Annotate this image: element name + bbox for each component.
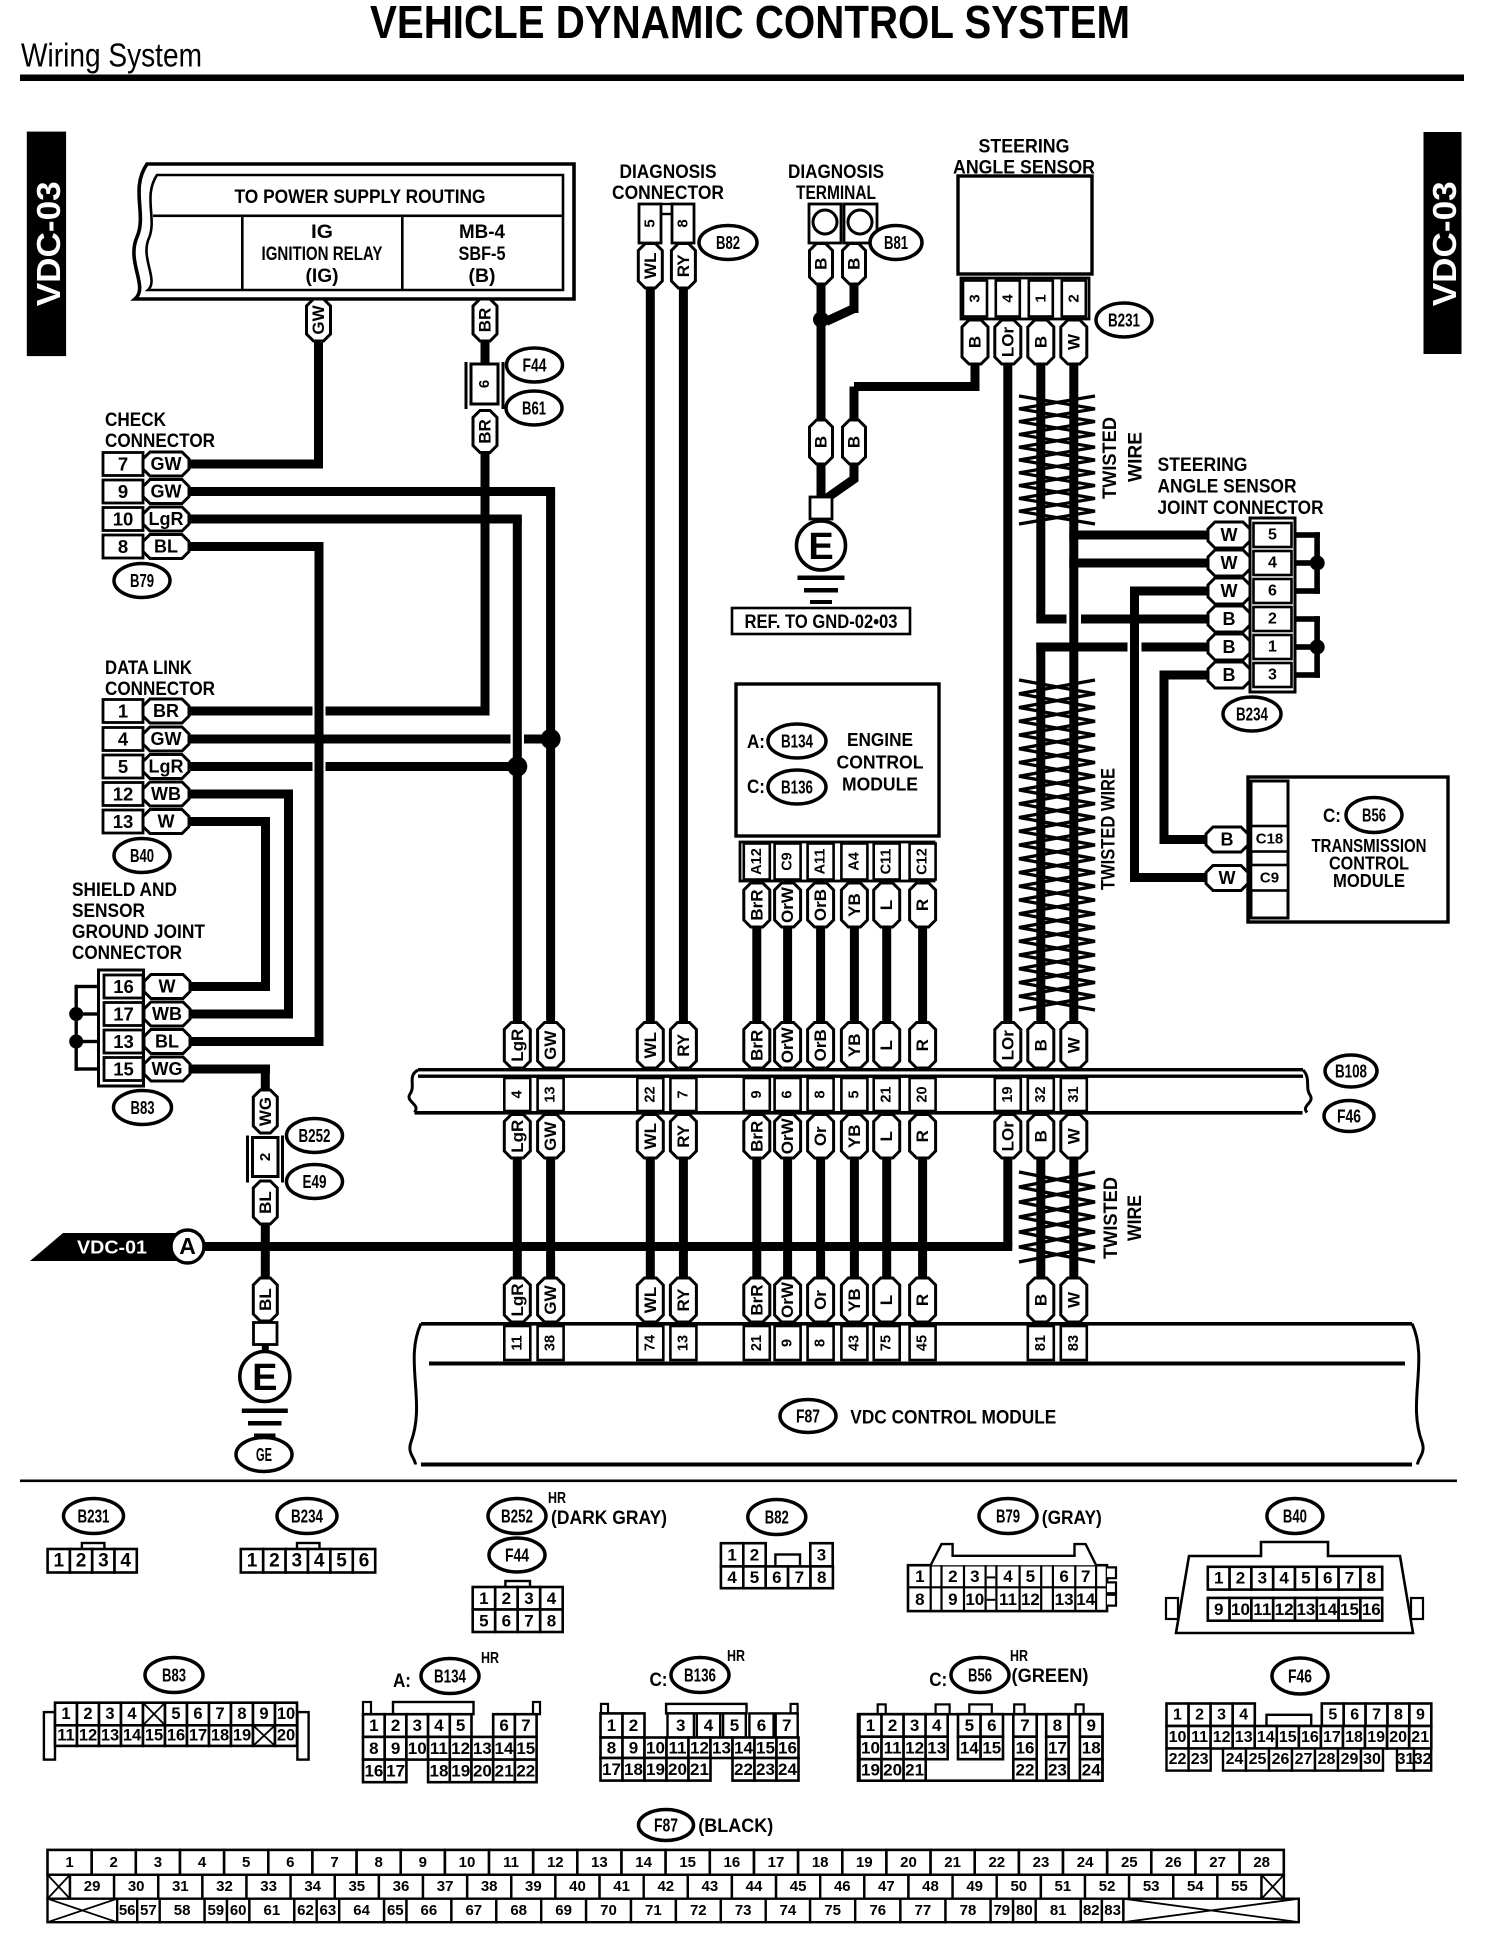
svg-text:B108: B108 [1335,1061,1367,1082]
wire RY to VDC module [679,1158,688,1278]
svg-text:7: 7 [1020,1716,1029,1735]
svg-text:1: 1 [727,1545,736,1564]
svg-text:8: 8 [915,1590,924,1609]
svg-text:8: 8 [813,1090,829,1098]
svg-text:RY: RY [674,1124,693,1148]
svg-text:W: W [1064,1127,1083,1144]
oval B82 [699,226,757,260]
svg-text:5: 5 [242,1854,250,1871]
svg-text:B231: B231 [1108,310,1140,331]
svg-text:7: 7 [1345,1569,1354,1588]
svg-text:24: 24 [1082,1760,1101,1779]
svg-text:13: 13 [543,1086,559,1102]
wire BL across VDC-01 line [261,1224,270,1278]
svg-text:2: 2 [1195,1706,1204,1723]
svg-text:SHIELD AND: SHIELD AND [72,880,177,901]
svg-text:12: 12 [1275,1600,1294,1619]
svg-text:B81: B81 [884,232,908,253]
svg-text:B82: B82 [765,1507,789,1528]
TCM pin C18 [1251,826,1288,852]
svg-text:6: 6 [286,1854,294,1871]
svg-text:7: 7 [1081,1567,1090,1586]
svg-text:49: 49 [966,1878,983,1895]
svg-text:54: 54 [1187,1878,1204,1895]
svg-text:5: 5 [456,1716,465,1735]
svg-text:46: 46 [834,1878,851,1895]
svg-text:B252: B252 [299,1125,331,1146]
svg-text:9: 9 [419,1854,427,1871]
svg-text:10: 10 [646,1738,665,1757]
svg-text:20: 20 [277,1727,295,1745]
svg-text:14: 14 [1257,1729,1275,1746]
wire RY column [679,288,688,1023]
svg-text:12: 12 [905,1738,924,1757]
connector joint rect [254,1323,278,1345]
ECM pin A12 [744,844,770,880]
svg-text:(DARK GRAY): (DARK GRAY) [551,1508,667,1529]
svg-text:7: 7 [795,1568,804,1587]
svg-text:13: 13 [712,1738,731,1757]
svg-text:1: 1 [915,1567,924,1586]
svg-text:F87: F87 [796,1406,820,1427]
wire data link 5 LgR with junction [189,762,313,771]
svg-text:LgR: LgR [149,509,184,529]
svg-text:43: 43 [702,1878,719,1895]
ECM pin A4 [841,844,867,880]
svg-text:48: 48 [922,1878,939,1895]
svg-text:45: 45 [790,1878,807,1895]
svg-text:LOr: LOr [998,327,1017,358]
svg-text:3: 3 [154,1854,162,1871]
wire check 9 GW to GW column [189,487,555,496]
oval B61 [506,391,562,425]
check connector pin 9 GW [103,480,143,503]
svg-text:15: 15 [756,1738,775,1757]
svg-text:18: 18 [430,1761,449,1780]
pill GW below band [538,1115,564,1159]
svg-text:27: 27 [1209,1854,1226,1871]
wire B column upper (to joint B2) [1036,364,1045,618]
svg-text:BL: BL [155,1032,179,1052]
svg-text:50: 50 [1010,1878,1027,1895]
svg-text:17: 17 [1323,1729,1341,1746]
svg-text:GE: GE [256,1444,272,1465]
svg-text:4: 4 [509,1090,525,1098]
svg-text:52: 52 [1099,1878,1116,1895]
bracket junction dots [69,1007,83,1021]
svg-text:2: 2 [110,1854,118,1871]
svg-text:12: 12 [547,1854,564,1871]
svg-text:LOr: LOr [998,1030,1017,1061]
F87 pin 38 column GW [538,1278,564,1322]
oval F44 [507,348,563,382]
B231 pin 1 [1029,281,1053,317]
svg-text:19: 19 [856,1854,873,1871]
wire B to VDC module [1036,1158,1045,1278]
band pin 31 column W [1061,1023,1087,1069]
svg-text:L: L [877,1040,896,1050]
pill BR below fuse [473,411,497,453]
left page tab VDC-03 [27,132,66,357]
svg-text:83: 83 [1104,1902,1121,1919]
svg-text:14: 14 [960,1738,979,1757]
wire R to VDC module [918,1158,927,1278]
engine control module box [736,684,939,836]
svg-text:OrW: OrW [778,1117,797,1154]
joint connector pin 6 W [1254,579,1292,603]
svg-text:11: 11 [669,1738,687,1757]
ground E circle GE [240,1352,290,1402]
twisted wire top [1019,396,1095,524]
F87 pin 74 column WL [637,1278,663,1322]
svg-text:4: 4 [127,1705,137,1723]
svg-text:8: 8 [118,536,128,557]
pinout oval B231 [64,1499,124,1534]
svg-text:TWISTED: TWISTED [1101,1177,1122,1259]
svg-text:F46: F46 [1337,1106,1361,1127]
svg-text:8: 8 [375,1854,383,1871]
svg-text:4: 4 [932,1716,942,1735]
svg-text:13: 13 [113,811,134,832]
svg-text:4: 4 [198,1854,207,1871]
svg-text:16: 16 [167,1727,185,1745]
svg-text:IG: IG [311,222,333,243]
pinout oval F44 [489,1538,545,1572]
oval B231 [1096,303,1152,337]
svg-text:F44: F44 [523,355,548,376]
svg-text:WL: WL [641,1032,660,1058]
svg-text:31: 31 [172,1878,189,1895]
joint connector pin 3 B [1254,663,1292,687]
svg-text:19: 19 [861,1760,880,1779]
svg-text:GW: GW [151,454,182,474]
pill OrB below ECM [808,883,834,927]
svg-text:W: W [158,812,175,832]
svg-text:B: B [845,258,864,270]
svg-text:LgR: LgR [508,1283,527,1316]
svg-text:B134: B134 [434,1666,467,1687]
svg-text:21: 21 [905,1760,924,1779]
svg-text:BL: BL [256,1191,275,1214]
svg-text:25: 25 [1249,1751,1267,1768]
svg-text:5: 5 [965,1716,974,1735]
svg-text:B234: B234 [1236,704,1269,725]
svg-text:1: 1 [369,1716,378,1735]
svg-text:OrW: OrW [778,1281,797,1318]
VDC control module band [421,1322,1412,1326]
svg-text:5: 5 [1301,1569,1310,1588]
svg-text:10: 10 [408,1739,427,1758]
pill BL below VDC-01 line [253,1278,277,1321]
svg-text:31: 31 [1397,1751,1415,1768]
band pin 19 column LOr [995,1023,1021,1069]
pill LgR below band [504,1115,530,1159]
svg-text:78: 78 [960,1902,977,1919]
svg-text:65: 65 [387,1902,404,1919]
svg-text:1: 1 [118,701,128,722]
transmission control module box [1248,777,1448,922]
joint connector body [1250,518,1295,692]
svg-text:YB: YB [845,1124,864,1148]
wire B1 from B column [1036,643,1127,652]
svg-text:GW: GW [541,1284,560,1314]
joint connector pin 4 W [1254,551,1292,575]
pinout connector B82 [721,1543,743,1566]
pill GW under IG relay [307,299,331,341]
svg-text:W: W [1064,1291,1083,1308]
svg-text:1: 1 [61,1705,70,1723]
svg-text:31: 31 [1066,1086,1082,1102]
svg-text:Or: Or [811,1126,830,1146]
svg-text:32: 32 [216,1878,233,1895]
svg-text:24: 24 [1077,1854,1094,1871]
svg-text:11: 11 [884,1738,902,1757]
svg-text:B79: B79 [130,570,154,591]
svg-text:8: 8 [1053,1716,1062,1735]
svg-text:43: 43 [846,1335,862,1351]
pinout oval F87 (BLACK) [639,1810,694,1841]
oval B83 [114,1091,172,1125]
svg-text:TWISTED WIRE: TWISTED WIRE [1099,768,1120,890]
svg-text:28: 28 [1318,1751,1336,1768]
svg-text:11: 11 [503,1854,519,1871]
svg-text:6: 6 [780,1090,796,1098]
svg-text:20: 20 [883,1760,902,1779]
svg-text:16: 16 [1301,1729,1319,1746]
pill LOr (pin4) [995,320,1021,364]
svg-text:CONNECTOR: CONNECTOR [105,431,215,452]
svg-text:SENSOR: SENSOR [72,901,145,922]
svg-text:17: 17 [113,1004,134,1025]
svg-text:3: 3 [1217,1706,1226,1723]
svg-text:L: L [877,1295,896,1305]
svg-text:47: 47 [878,1878,895,1895]
svg-text:W: W [1064,333,1083,350]
pinout connector B231 [82,1543,105,1550]
svg-text:MODULE: MODULE [842,775,918,795]
svg-text:TERMINAL: TERMINAL [796,183,876,204]
svg-text:GW: GW [541,1121,560,1151]
wire LgR column [513,519,522,1023]
svg-text:DIAGNOSIS: DIAGNOSIS [620,162,717,183]
band pin 4 column LgR [504,1023,530,1069]
svg-text:9: 9 [1214,1600,1223,1619]
svg-text:15: 15 [1340,1600,1359,1619]
svg-text:4: 4 [704,1716,714,1735]
joint bracket 5-4-6 [1314,532,1320,594]
svg-text:13: 13 [1055,1590,1074,1609]
svg-text:1: 1 [1173,1706,1182,1723]
band pin 5 column YB [841,1023,867,1069]
svg-text:YB: YB [845,1033,864,1057]
svg-text:WL: WL [641,1287,660,1313]
svg-text:9: 9 [1086,1716,1095,1735]
svg-text:19: 19 [233,1727,251,1745]
pill OrW below band [775,1115,801,1159]
wire BR from SBF-5 [481,341,490,364]
svg-text:22: 22 [1169,1751,1187,1768]
svg-text:W: W [1221,525,1238,545]
svg-text:2: 2 [1268,611,1277,628]
wire W column [1069,364,1078,1023]
svg-text:19: 19 [451,1761,470,1780]
svg-text:70: 70 [600,1902,617,1919]
svg-text:W: W [159,977,176,997]
svg-text:4: 4 [1239,1706,1248,1723]
wire shield 15 WG [190,1065,270,1074]
svg-text:6: 6 [1059,1567,1068,1586]
svg-text:B234: B234 [291,1506,324,1527]
svg-text:15: 15 [982,1738,1001,1757]
svg-text:8: 8 [1394,1706,1403,1723]
svg-text:8: 8 [607,1738,616,1757]
svg-text:6: 6 [1268,583,1277,600]
svg-text:9: 9 [948,1590,957,1609]
pill BL above VDC-01 line [253,1181,277,1224]
wire WL column [646,288,655,1023]
svg-text:HR: HR [548,1490,566,1507]
svg-text:YB: YB [845,893,864,917]
svg-text:67: 67 [465,1902,482,1919]
F87 pin 83 column W [1061,1278,1087,1322]
band pin 6 column OrW [775,1023,801,1069]
svg-text:20: 20 [668,1760,687,1779]
svg-text:44: 44 [746,1878,763,1895]
pill BrR below band [744,1115,770,1159]
svg-text:(GREEN): (GREEN) [1012,1666,1089,1687]
svg-text:72: 72 [690,1902,707,1919]
svg-text:Or: Or [811,1290,830,1310]
diagnosis connector pin 8 [672,204,694,243]
svg-text:4: 4 [547,1589,557,1608]
svg-text:58: 58 [174,1902,191,1919]
svg-text:12: 12 [79,1727,97,1745]
svg-text:7: 7 [215,1705,224,1723]
svg-text:7: 7 [782,1716,791,1735]
wire data link 12 WB [189,790,293,799]
svg-text:8: 8 [547,1611,556,1630]
svg-text:66: 66 [421,1902,438,1919]
svg-text:19: 19 [1000,1086,1016,1102]
wire W4 branch [1069,559,1208,568]
svg-text:BrR: BrR [747,889,766,920]
svg-text:MB-4: MB-4 [459,222,505,243]
svg-text:1: 1 [54,1550,65,1571]
wire GW to VDC module [546,1158,555,1278]
svg-text:4: 4 [727,1568,737,1587]
svg-text:21: 21 [879,1086,895,1102]
svg-text:R: R [913,1130,932,1142]
svg-text:7: 7 [118,454,128,475]
svg-text:16: 16 [1016,1738,1035,1757]
svg-text:69: 69 [555,1902,572,1919]
svg-text:9: 9 [118,481,128,502]
svg-text:B: B [1223,609,1236,629]
wires to junction [817,284,826,324]
svg-text:21: 21 [495,1761,514,1780]
svg-text:6: 6 [499,1716,508,1735]
svg-text:13: 13 [101,1727,119,1745]
svg-text:12: 12 [113,784,134,805]
svg-text:B82: B82 [716,232,740,253]
joint connector pin 2 B [1254,607,1292,631]
svg-text:8: 8 [817,1568,826,1587]
band pin 32 column B [1028,1023,1054,1069]
svg-text:2: 2 [502,1589,511,1608]
pinout connector F44 [505,1581,530,1588]
svg-text:16: 16 [113,976,134,997]
svg-text:10: 10 [965,1590,984,1609]
svg-text:15: 15 [145,1727,163,1745]
pinout connector B136 [601,1704,608,1714]
svg-text:2: 2 [888,1716,897,1735]
svg-text:3: 3 [98,1550,109,1571]
diagnosis connector bridge [659,204,674,214]
svg-text:R: R [913,1294,932,1306]
pinout connector B40 [1166,1598,1178,1619]
shield connector pin 13 BL [104,1030,143,1053]
oval B108 [1325,1055,1377,1087]
svg-text:6: 6 [193,1705,202,1723]
svg-text:63: 63 [320,1902,337,1919]
svg-text:4: 4 [120,1550,131,1571]
wire LOr column upper [1003,364,1012,1023]
svg-text:16: 16 [778,1738,797,1757]
wire W5 branch [1069,531,1208,540]
svg-text:19: 19 [646,1760,665,1779]
svg-text:17: 17 [386,1761,405,1780]
svg-text:B: B [1031,1039,1050,1051]
svg-text:IGNITION RELAY: IGNITION RELAY [262,244,383,265]
svg-text:MODULE: MODULE [1333,871,1405,891]
svg-text:B40: B40 [130,845,154,866]
svg-text:CONNECTOR: CONNECTOR [105,679,215,700]
svg-text:14: 14 [1076,1590,1095,1609]
svg-text:BrR: BrR [747,1121,766,1152]
pinout oval B83 [145,1658,203,1693]
svg-text:10: 10 [1169,1729,1187,1746]
svg-text:2: 2 [257,1153,274,1161]
svg-text:F87: F87 [654,1815,678,1836]
wire Or to VDC module [816,1158,825,1278]
svg-text:10: 10 [459,1854,476,1871]
ground symbol [242,1409,288,1414]
svg-text:W: W [1219,868,1236,888]
svg-text:CONNECTOR: CONNECTOR [612,183,724,204]
svg-text:B: B [845,436,864,448]
svg-text:16: 16 [1362,1600,1381,1619]
svg-text:20: 20 [473,1761,492,1780]
svg-text:61: 61 [264,1902,281,1919]
svg-text:9: 9 [749,1090,765,1098]
svg-text:(BLACK): (BLACK) [698,1816,773,1837]
svg-text:4: 4 [118,729,129,750]
svg-text:BR: BR [153,701,179,721]
svg-text:3: 3 [292,1550,303,1571]
svg-text:1: 1 [866,1716,875,1735]
svg-text:HR: HR [727,1648,745,1665]
svg-text:3: 3 [105,1705,114,1723]
pinout oval B79 (GRAY) [979,1499,1037,1534]
svg-text:9: 9 [259,1705,268,1723]
svg-text:24: 24 [1226,1751,1244,1768]
svg-text:23: 23 [1033,1854,1050,1871]
svg-text:6: 6 [1323,1569,1332,1588]
svg-text:1: 1 [1268,639,1277,656]
svg-text:CHECK: CHECK [105,410,166,431]
pill B C18 [1206,827,1248,852]
svg-text:WL: WL [641,253,660,279]
